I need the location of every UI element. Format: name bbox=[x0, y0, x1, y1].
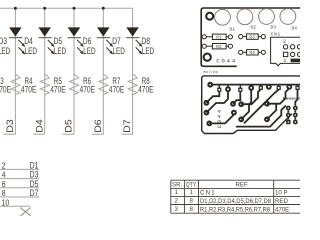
svg-text:D7: D7 bbox=[30, 188, 39, 198]
svg-text:CN1: CN1 bbox=[200, 189, 216, 196]
svg-text:LED: LED bbox=[54, 46, 66, 56]
svg-text:D5: D5 bbox=[64, 119, 74, 133]
svg-text:2: 2 bbox=[175, 198, 179, 205]
svg-text:D1: D1 bbox=[230, 27, 236, 33]
svg-text:8: 8 bbox=[190, 206, 194, 213]
svg-text:D1,D2,D3,D4,D5,D6,D7,D8: D1,D2,D3,D4,D5,D6,D7,D8 bbox=[200, 198, 272, 205]
svg-text:LED: LED bbox=[0, 46, 10, 56]
wire column D4/R5 bbox=[44, 8, 46, 134]
LED D4 bbox=[9, 27, 37, 56]
svg-text:D4: D4 bbox=[292, 26, 298, 32]
board 1 outline bbox=[201, 8, 300, 66]
mount hole bottom-left bbox=[204, 54, 211, 61]
left column pads bbox=[204, 100, 210, 106]
net label underline bbox=[4, 133, 16, 135]
svg-text:QTY.: QTY. bbox=[186, 181, 197, 188]
svg-text:R2: R2 bbox=[216, 44, 222, 50]
svg-text:3: 3 bbox=[175, 206, 179, 213]
svg-text:1: 1 bbox=[175, 189, 179, 196]
resistor R8 bbox=[128, 74, 153, 95]
right cluster pads (CN1 copper) bbox=[286, 106, 291, 111]
CN1 pin pads bottom row bbox=[290, 52, 294, 56]
svg-text:D3: D3 bbox=[5, 119, 15, 133]
mid pads bbox=[230, 101, 236, 107]
svg-text:C044: C044 bbox=[216, 57, 237, 64]
svg-text:MOTT08: MOTT08 bbox=[203, 71, 218, 75]
wire: top supply bus bbox=[0, 8, 133, 27]
svg-text:D4: D4 bbox=[34, 119, 44, 133]
svg-text:Panasonic: Panasonic bbox=[283, 97, 300, 101]
no-connect X on pin 10 bbox=[20, 208, 30, 216]
pin 10 wire bbox=[0, 205, 30, 207]
resistor R4 silk bbox=[239, 50, 266, 55]
svg-text:470E: 470E bbox=[275, 206, 289, 213]
LED D6 bbox=[68, 27, 96, 56]
LED D7 bbox=[97, 27, 125, 56]
svg-text:R3: R3 bbox=[249, 34, 255, 40]
svg-text:D7: D7 bbox=[122, 119, 132, 133]
svg-text:LED: LED bbox=[113, 46, 125, 56]
svg-text:470E: 470E bbox=[0, 85, 11, 95]
svg-text:D3: D3 bbox=[271, 25, 277, 31]
CN1 pin 1 square pad bbox=[283, 52, 287, 56]
svg-text:D7: D7 bbox=[112, 36, 121, 46]
svg-text:SR.: SR. bbox=[172, 181, 182, 188]
svg-text:LED: LED bbox=[83, 46, 95, 56]
wire column D3/R4 bbox=[14, 8, 16, 134]
svg-text:470E: 470E bbox=[21, 85, 37, 95]
LED D5 bbox=[38, 27, 66, 56]
table outline bbox=[171, 179, 300, 181]
net label underline bbox=[121, 133, 133, 135]
pin 2 wire bbox=[0, 168, 39, 170]
LED footprint D1 bbox=[215, 9, 231, 25]
svg-text:D6: D6 bbox=[93, 119, 103, 133]
svg-text:D6: D6 bbox=[83, 36, 92, 46]
resistor R7 bbox=[99, 74, 124, 95]
svg-text:470E: 470E bbox=[50, 85, 66, 95]
net label underline bbox=[33, 133, 45, 135]
svg-text:2: 2 bbox=[283, 39, 286, 45]
pin 8 wire bbox=[0, 196, 39, 198]
wire column D6/R7 bbox=[102, 8, 104, 134]
mount hole top-left bbox=[206, 13, 213, 20]
pad corner top-left bbox=[207, 82, 213, 88]
svg-text:470E: 470E bbox=[138, 85, 154, 95]
CN1 key bar bbox=[291, 59, 301, 63]
resistor R1 silk bbox=[202, 34, 232, 39]
svg-text:D2: D2 bbox=[251, 25, 257, 31]
wire column D7/R8 bbox=[132, 28, 134, 135]
svg-text:470E: 470E bbox=[80, 85, 96, 95]
svg-text:R4: R4 bbox=[249, 50, 255, 56]
pin 4 wire bbox=[0, 178, 39, 180]
resistor R3 silk bbox=[239, 34, 266, 39]
CN1 pin pads top row bbox=[283, 45, 287, 49]
svg-text:470E: 470E bbox=[109, 85, 125, 95]
LED D8 bbox=[126, 27, 154, 56]
junction node 4 bbox=[102, 7, 105, 10]
board 2 outline bbox=[202, 76, 300, 134]
svg-text:1: 1 bbox=[190, 189, 194, 196]
pin 6 wire bbox=[0, 187, 39, 189]
copper traces bbox=[206, 88, 297, 126]
svg-text:LED: LED bbox=[142, 46, 154, 56]
resistor R4 bbox=[11, 74, 36, 95]
resistor R5 bbox=[40, 74, 65, 95]
resistor R3 label (component off-canvas left) bbox=[0, 76, 11, 94]
LED footprint D4 bbox=[280, 9, 296, 25]
svg-text:R1: R1 bbox=[216, 35, 222, 41]
resistor R6 bbox=[70, 74, 95, 95]
svg-text:10: 10 bbox=[2, 197, 10, 207]
svg-text:LED: LED bbox=[25, 46, 37, 56]
svg-text:RED: RED bbox=[275, 198, 288, 205]
wire column D5/R6 bbox=[73, 8, 75, 134]
junction node 3 bbox=[73, 7, 76, 10]
svg-text:D8: D8 bbox=[141, 36, 150, 46]
svg-text:D4: D4 bbox=[24, 36, 33, 46]
junction node 2 bbox=[43, 7, 46, 10]
net label underline bbox=[92, 133, 104, 135]
net label underline bbox=[63, 133, 75, 135]
svg-text:C044: C044 bbox=[216, 108, 223, 128]
svg-text:D5: D5 bbox=[54, 36, 63, 46]
svg-text:R1,R2,R3,R4,R5,R6,R7,R8: R1,R2,R3,R4,R5,R6,R7,R8 bbox=[200, 206, 271, 213]
svg-text:10 P: 10 P bbox=[275, 189, 288, 196]
svg-text:8: 8 bbox=[190, 198, 194, 205]
pad row under bus bbox=[217, 84, 299, 92]
LED D3 label (component off-canvas left) bbox=[0, 36, 10, 56]
LED footprint D2 bbox=[237, 9, 253, 25]
junction node 1 bbox=[14, 7, 17, 10]
copper bus trace top bbox=[210, 84, 300, 86]
svg-text:D3: D3 bbox=[0, 36, 7, 46]
svg-text:1: 1 bbox=[283, 58, 286, 64]
resistor R2 silk bbox=[202, 44, 232, 49]
LED footprint D3 bbox=[259, 9, 275, 25]
trace stubs bus to pads bbox=[219, 85, 297, 90]
svg-text:REF.: REF. bbox=[236, 181, 250, 188]
